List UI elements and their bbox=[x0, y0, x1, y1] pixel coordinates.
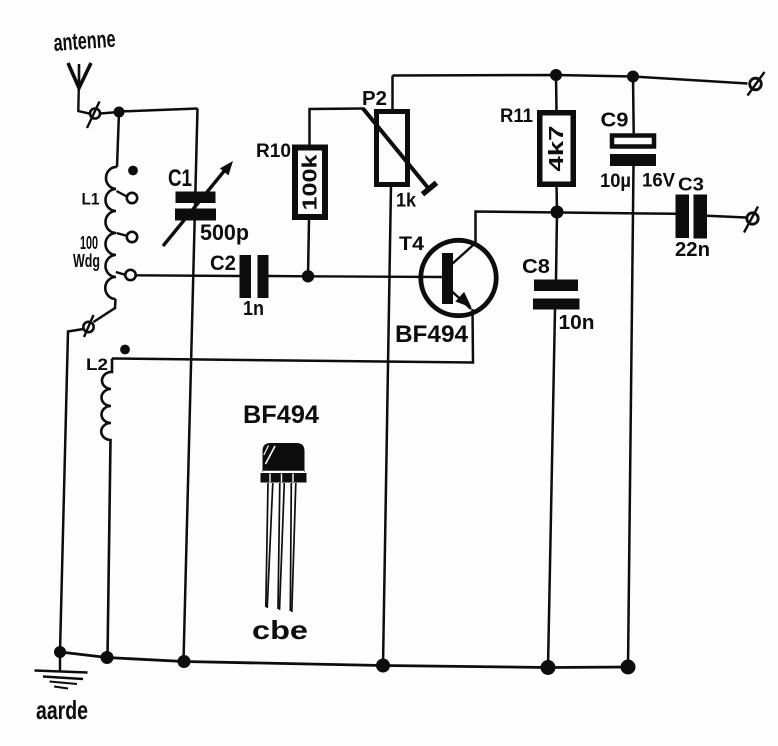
wire C8 bottom to ground bus bbox=[548, 310, 555, 668]
wire R11 bottom to node C bbox=[555, 184, 558, 212]
label Wdg bbox=[73, 251, 100, 271]
svg-text:1k: 1k bbox=[396, 191, 416, 212]
svg-text:C2: C2 bbox=[210, 252, 236, 275]
svg-text:10µ: 10µ bbox=[600, 171, 631, 192]
bus junction dot (left/ground) bbox=[54, 646, 66, 658]
node B junction dot (C2/R10/base) bbox=[302, 270, 314, 282]
value label 22n bbox=[675, 239, 710, 261]
T4 emitter stroke with arrow bbox=[452, 292, 472, 310]
potentiometer P2 body bbox=[377, 112, 408, 185]
svg-text:P2: P2 bbox=[362, 88, 387, 110]
transistor T4 circle bbox=[421, 240, 496, 315]
label L2 bbox=[86, 355, 108, 374]
capacitor C2 plates bbox=[240, 255, 269, 298]
T4 base bar bbox=[442, 253, 453, 304]
value label 1n bbox=[243, 298, 264, 320]
wire C8 top bbox=[556, 212, 557, 280]
bus junction dot (C8) bbox=[541, 660, 556, 675]
svg-text:100: 100 bbox=[80, 233, 98, 253]
wire R10 top to P2 wiper bbox=[310, 109, 365, 146]
label T4 bbox=[399, 234, 424, 255]
value label 10n bbox=[559, 312, 595, 334]
svg-text:BF494: BF494 bbox=[243, 401, 319, 429]
label cbe bbox=[252, 615, 308, 645]
bus junction dot (C1) bbox=[178, 655, 191, 668]
svg-text:cbe: cbe bbox=[252, 615, 308, 645]
value label 16V bbox=[642, 171, 675, 192]
resistor R11 body bbox=[540, 113, 574, 185]
value label 500p bbox=[200, 220, 249, 245]
label aarde bbox=[36, 695, 88, 725]
bus junction dot (P2) bbox=[376, 659, 390, 673]
wire C2 to node B bbox=[269, 275, 309, 278]
svg-text:22n: 22n bbox=[675, 239, 710, 261]
value label 1k bbox=[396, 191, 416, 212]
C9 bottom plate bbox=[610, 154, 656, 166]
svg-text:C8: C8 bbox=[522, 256, 550, 278]
label R11 bbox=[500, 106, 533, 127]
label BF494 (package drawing) bbox=[243, 401, 319, 429]
wire C3 to output terminal bbox=[707, 216, 746, 218]
R11 value 4k7 (rotated) bbox=[546, 126, 568, 172]
wire P2 bottom to ground bus bbox=[383, 185, 391, 666]
bus junction dot (C9) bbox=[621, 660, 636, 675]
wire node A down to L1 bbox=[117, 112, 119, 167]
capacitor C8 plates bbox=[533, 280, 580, 310]
wire collector rail (T4 collector to C3) bbox=[476, 212, 677, 243]
ground symbol (earth) bbox=[35, 652, 88, 689]
wire terminal to node A bbox=[100, 112, 119, 114]
node C junction dot (R11/collector/C8) bbox=[551, 206, 564, 219]
T4 collector stroke bbox=[452, 243, 476, 265]
svg-text:Wdg: Wdg bbox=[73, 251, 100, 271]
svg-text:1n: 1n bbox=[243, 298, 264, 320]
svg-text:R10: R10 bbox=[256, 141, 291, 162]
svg-text:T4: T4 bbox=[399, 234, 424, 255]
svg-text:antenne: antenne bbox=[53, 26, 117, 57]
antenna input terminal (plug) bbox=[87, 102, 100, 129]
electrolytic capacitor C9 top plate bbox=[612, 136, 654, 147]
capacitor C3 plates bbox=[676, 195, 708, 239]
wire L1 bottom to lower terminal bbox=[94, 299, 116, 322]
label C8 bbox=[522, 256, 550, 278]
label BF494 (schematic) bbox=[395, 321, 469, 348]
antenna label "antenne" bbox=[53, 26, 117, 57]
label L1 bbox=[82, 190, 100, 209]
label 100 bbox=[80, 233, 98, 253]
svg-text:C1: C1 bbox=[168, 165, 192, 192]
label C9 bbox=[601, 110, 629, 132]
ground bus wire bbox=[60, 652, 629, 668]
output terminal (right) bbox=[744, 207, 758, 233]
lower antenna terminal (plug) bbox=[83, 315, 93, 337]
value label 10µ bbox=[600, 171, 631, 192]
inductor L2 coil bbox=[101, 359, 112, 659]
svg-text:C3: C3 bbox=[678, 175, 704, 195]
wire base: node B to T4 bbox=[308, 275, 444, 278]
wire R11 top bbox=[555, 75, 558, 113]
inductor L1 coil bbox=[105, 167, 117, 299]
svg-text:C9: C9 bbox=[601, 110, 629, 132]
L2 polarity dot bbox=[120, 345, 130, 355]
L1 polarity dot bbox=[128, 166, 138, 176]
wire T4 emitter down and left to L2 bbox=[112, 309, 473, 363]
wire P2 top to supply rail bbox=[391, 76, 394, 112]
BF494 package legs bbox=[266, 483, 296, 612]
label P2 bbox=[362, 88, 387, 110]
supply rail wire (top) bbox=[393, 75, 748, 84]
wire node A to C1 top bbox=[119, 109, 198, 112]
wire C9 bottom to ground bus bbox=[628, 166, 634, 667]
label C2 bbox=[210, 252, 236, 275]
R10 value 100k (rotated) bbox=[300, 153, 322, 210]
svg-text:500p: 500p bbox=[200, 220, 249, 245]
L1 tap circles bbox=[125, 193, 137, 280]
L1 tap stubs bbox=[116, 191, 127, 275]
wire L1 tap 3 to C2 bbox=[136, 274, 240, 277]
BF494 package body (TO-92 case) bbox=[261, 443, 307, 483]
svg-text:BF494: BF494 bbox=[395, 321, 469, 348]
svg-text:10n: 10n bbox=[559, 312, 595, 334]
wire R10 bottom bbox=[308, 220, 309, 276]
wire C9 top bbox=[632, 77, 635, 134]
supply terminal (top right) bbox=[748, 72, 765, 96]
label C3 bbox=[678, 175, 704, 195]
junction dot supply/R11 bbox=[550, 69, 562, 81]
junction dot supply/C9 bbox=[627, 71, 639, 83]
wire C1 vertical (node A to ground bus) bbox=[184, 109, 198, 662]
svg-text:L2: L2 bbox=[86, 355, 108, 374]
svg-text:100k: 100k bbox=[300, 153, 322, 210]
svg-text:aarde: aarde bbox=[36, 695, 88, 725]
node A junction dot (antenna / C1 / L1) bbox=[114, 107, 125, 118]
wire lower terminal to left ground line bbox=[60, 329, 84, 652]
P2 wiper diagonal arrow bbox=[363, 109, 437, 195]
label C1 bbox=[168, 165, 192, 192]
svg-text:4k7: 4k7 bbox=[546, 126, 568, 172]
svg-text:L1: L1 bbox=[82, 190, 100, 209]
variable capacitor C1 plates bbox=[175, 192, 216, 221]
svg-text:16V: 16V bbox=[642, 171, 675, 192]
svg-text:R11: R11 bbox=[500, 106, 533, 127]
antenna symbol bbox=[68, 63, 91, 114]
label R10 bbox=[256, 141, 291, 162]
resistor R10 body bbox=[295, 148, 325, 218]
bus junction dot (L2) bbox=[101, 651, 114, 664]
C1 adjustment arrow bbox=[163, 161, 233, 246]
